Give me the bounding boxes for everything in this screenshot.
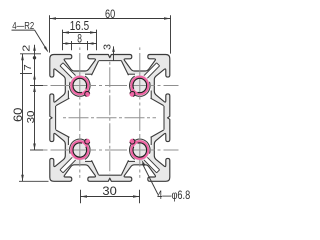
svg-text:4—φ6.8: 4—φ6.8 (157, 188, 190, 202)
svg-text:8: 8 (77, 31, 82, 45)
svg-text:30: 30 (102, 184, 117, 198)
svg-text:60: 60 (105, 7, 115, 21)
svg-text:7: 7 (22, 64, 34, 71)
svg-text:2: 2 (21, 44, 32, 52)
svg-text:30: 30 (26, 110, 37, 123)
svg-text:60: 60 (13, 108, 25, 123)
svg-text:3: 3 (102, 44, 114, 50)
